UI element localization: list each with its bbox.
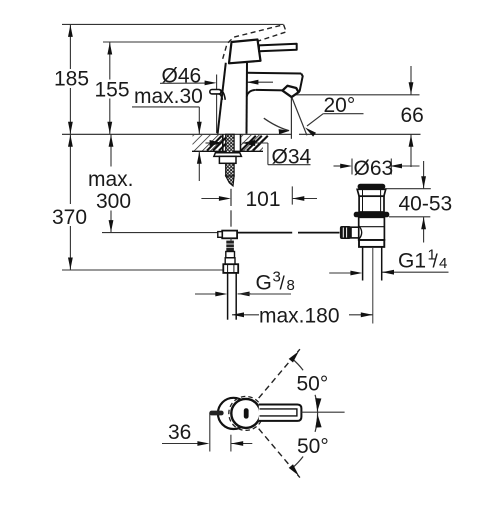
svg-text:max.180: max.180	[259, 305, 340, 328]
svg-text:40-53: 40-53	[399, 193, 453, 216]
svg-text:G1: G1	[398, 250, 426, 273]
svg-text:66: 66	[401, 104, 424, 127]
svg-text:20°: 20°	[324, 94, 356, 117]
svg-text:185: 185	[54, 68, 89, 91]
svg-text:Ø63: Ø63	[354, 157, 394, 180]
svg-text:155: 155	[95, 79, 130, 102]
svg-text:4: 4	[439, 255, 447, 272]
svg-text:max.: max.	[88, 168, 134, 191]
svg-text:max.30: max.30	[134, 85, 203, 108]
svg-text:Ø34: Ø34	[272, 146, 312, 169]
svg-text:/: /	[433, 252, 439, 273]
svg-text:Ø46: Ø46	[162, 65, 202, 88]
svg-text:50°: 50°	[297, 373, 329, 396]
svg-text:/: /	[280, 274, 286, 295]
svg-text:370: 370	[52, 206, 87, 229]
svg-text:50°: 50°	[297, 435, 329, 458]
svg-text:101: 101	[246, 188, 281, 211]
svg-text:300: 300	[96, 190, 131, 213]
svg-text:G: G	[256, 272, 272, 295]
svg-text:8: 8	[287, 277, 295, 294]
svg-text:36: 36	[168, 421, 191, 444]
